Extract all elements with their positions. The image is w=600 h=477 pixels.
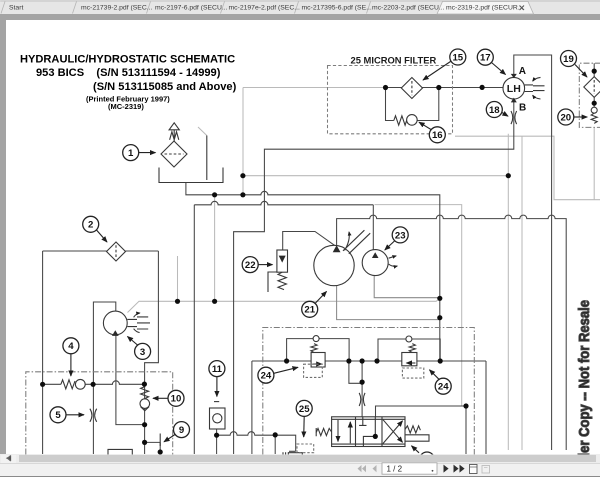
wire faint bus2 extension	[375, 205, 462, 406]
node faint cross taps	[240, 173, 245, 178]
wire pressure bus	[337, 215, 567, 450]
node pilot tap	[360, 380, 365, 385]
svg-text:ler Copy -- Not for Resale: ler Copy -- Not for Resale	[575, 300, 592, 457]
wire right24 bypass loop	[378, 339, 440, 361]
node filter15 taps	[383, 85, 388, 90]
relief spring 20	[591, 113, 597, 123]
wire pump3 outlet	[116, 335, 145, 425]
filter element F19	[584, 77, 600, 98]
svg-text:mc-2203-2.pdf (SECU...: mc-2203-2.pdf (SECU...	[372, 4, 445, 11]
callout 11	[209, 361, 225, 397]
wire check11 rail	[217, 432, 296, 452]
tab close x	[520, 6, 525, 11]
filter19 dash-dot box	[579, 63, 600, 127]
callout 9	[164, 422, 190, 442]
wire suction bus	[186, 183, 440, 361]
horizontal scrollbar	[0, 454, 600, 463]
node drain collector taps	[437, 296, 442, 301]
wire faint case drain	[128, 299, 440, 313]
check valve 10 spring	[141, 387, 149, 399]
svg-text:1: 1	[128, 148, 134, 159]
wire filter bypass	[386, 88, 439, 121]
wire strainer row	[43, 250, 159, 252]
wire faint top-right box	[455, 136, 600, 200]
svg-text:mc-21739-2.pdf (SEC...: mc-21739-2.pdf (SEC...	[81, 4, 153, 11]
node filter19 taps	[592, 69, 597, 74]
svg-text:24: 24	[438, 382, 449, 393]
wire LH A-port loop	[514, 55, 552, 450]
node spool top tap	[463, 403, 468, 408]
callout 4	[63, 338, 79, 376]
wire strainer left drop	[42, 251, 44, 454]
svg-text:11: 11	[212, 364, 223, 375]
callout 20	[558, 109, 587, 125]
svg-text:(MC-2319): (MC-2319)	[108, 102, 144, 111]
wire faint return drop A	[507, 134, 509, 450]
svg-text:23: 23	[395, 230, 406, 241]
wire check11 lower drop	[216, 429, 218, 454]
valve actuator	[405, 435, 429, 441]
bypass spring 16	[394, 116, 407, 125]
port relief right 24	[402, 353, 417, 366]
left group dash-dot box	[26, 372, 173, 455]
wire pump3 feed	[93, 302, 115, 384]
svg-text:mc-2197e-2.pdf (SEC...: mc-2197e-2.pdf (SEC...	[229, 4, 301, 11]
svg-text:1 / 2: 1 / 2	[387, 464, 403, 473]
wire faint return drop B	[521, 136, 523, 450]
reservoir tank	[159, 168, 223, 183]
callout 16	[419, 122, 445, 143]
wire faint filter19 drop	[593, 127, 595, 199]
svg-text:22: 22	[245, 260, 256, 271]
node bottom rail taps	[284, 358, 289, 363]
wire pump3 feed lower	[92, 384, 94, 454]
valve spring right	[405, 426, 420, 433]
toolbar nav prev (gray)	[373, 465, 377, 472]
relief valve 22	[277, 250, 288, 272]
wire main bottom rail	[252, 360, 486, 362]
svg-text:4: 4	[68, 341, 74, 352]
gear pump 3	[103, 311, 127, 335]
svg-text:15: 15	[452, 52, 463, 63]
wire faint vertical	[242, 88, 244, 195]
wire bottom rail left drop	[251, 361, 253, 454]
svg-text:A: A	[519, 66, 526, 77]
callout 5	[50, 407, 84, 423]
callout 3	[128, 337, 151, 360]
wire charge bus left drop	[193, 205, 195, 454]
wire faint cross line	[243, 175, 508, 177]
charge pump 23	[362, 250, 388, 276]
callout 10	[153, 390, 184, 406]
callout 25	[296, 400, 312, 437]
svg-text:18: 18	[489, 105, 500, 116]
wire filter19 drop	[593, 63, 595, 107]
tab labels	[9, 4, 524, 11]
wire charge pump feed	[372, 205, 374, 252]
callout 1	[123, 145, 156, 161]
svg-text:21: 21	[304, 305, 315, 316]
wire LH B-port return	[234, 99, 514, 454]
svg-text:17: 17	[480, 53, 491, 64]
callout 24 left	[258, 367, 298, 383]
LH drive motor	[503, 77, 525, 99]
directional control valve	[332, 417, 405, 447]
port relief left 24	[311, 353, 325, 368]
tab separators	[0, 1, 600, 14]
wire spool feed	[361, 361, 363, 417]
svg-text:16: 16	[432, 130, 443, 141]
orifice 9 plug	[159, 434, 161, 447]
wire spool top port	[376, 406, 467, 454]
callout 17	[477, 49, 505, 74]
svg-text:2: 2	[88, 220, 93, 231]
breather cap	[169, 123, 179, 130]
node check10 taps	[142, 422, 147, 427]
wire check11 rail drop	[274, 435, 276, 454]
wire bottom rail right drop	[485, 361, 487, 454]
check valve 11	[214, 401, 219, 403]
callout 19	[561, 51, 588, 78]
wire pilot jog	[349, 361, 362, 383]
svg-text:mc-217395-6.pdf (SE...: mc-217395-6.pdf (SE...	[302, 4, 372, 11]
wire faint sense vertical	[214, 195, 216, 301]
flow restrictor 18	[511, 111, 517, 124]
toolbar nav last-page	[454, 465, 465, 473]
wire filter to LH	[386, 87, 504, 89]
svg-text:3: 3	[140, 347, 145, 358]
wire faint charge line	[243, 87, 386, 89]
hydrostatic pump 21	[314, 245, 354, 285]
wire main pump drain	[337, 285, 440, 320]
node relief4 row taps	[40, 382, 45, 387]
orifice 5	[90, 409, 97, 422]
toolbar icon rotate	[470, 465, 478, 474]
check valve 10	[140, 399, 150, 409]
svg-text:953 BICS (S/N 513111594 - 1: 953 BICS (S/N 513111594 - 14999)	[36, 67, 221, 79]
wire strainer right drop	[145, 251, 159, 454]
node case drain taps	[175, 299, 180, 304]
hscroll left arrow	[8, 455, 11, 461]
relief valve 4	[61, 380, 75, 389]
solenoid 25	[288, 453, 302, 455]
svg-text:25: 25	[299, 404, 310, 415]
center group dash-dot box	[263, 328, 475, 455]
svg-text:9: 9	[179, 425, 184, 436]
svg-text:B: B	[519, 103, 526, 114]
callout 2	[83, 216, 107, 242]
svg-text:Start: Start	[9, 4, 23, 11]
tank return pipe	[206, 136, 208, 181]
suction strainer F2	[107, 242, 126, 261]
bottom toolbar	[0, 463, 600, 477]
svg-text:25 MICRON FILTER: 25 MICRON FILTER	[351, 55, 437, 66]
wire charge pump drain	[374, 276, 440, 298]
check ball 20	[591, 107, 597, 113]
gray strip below tabs	[0, 14, 600, 20]
svg-text:20: 20	[560, 112, 571, 123]
svg-text:5: 5	[55, 410, 61, 421]
node suction bus taps	[212, 192, 217, 197]
callout 26	[412, 446, 435, 467]
svg-text:19: 19	[563, 54, 574, 65]
svg-text:mc-2197-6.pdf (SECU...: mc-2197-6.pdf (SECU...	[155, 4, 228, 11]
svg-text:10: 10	[171, 394, 182, 405]
25 micron filter dashed box	[328, 66, 453, 134]
tab bar	[0, 0, 600, 14]
valve spring left	[316, 428, 332, 436]
callout 15	[423, 49, 466, 80]
svg-text:mc-2319-2.pdf (SECUR...: mc-2319-2.pdf (SECUR...	[446, 4, 524, 11]
LH output shaft	[525, 85, 545, 92]
svg-text:LH: LH	[507, 83, 521, 95]
node spool center tap	[373, 434, 378, 439]
toolbar nav next	[444, 465, 449, 473]
wire faint sense vertical 2	[177, 256, 179, 301]
toolbar icon (disabled)	[482, 466, 490, 474]
page number field	[382, 463, 437, 474]
bypass check ball 16	[407, 115, 418, 126]
filler strainer F1	[161, 141, 187, 167]
callout 22	[242, 257, 272, 273]
wire faint tank inlet	[198, 127, 207, 136]
callout 18	[486, 102, 508, 118]
callout 21	[302, 292, 327, 318]
active tab	[437, 2, 534, 15]
toolbar nav first-page (gray)	[358, 465, 367, 472]
wire servo branch	[283, 232, 337, 251]
filter element F15	[401, 78, 422, 99]
svg-text:24: 24	[261, 371, 272, 382]
wire orifice9 branch	[145, 442, 161, 454]
wire left24 bypass loop	[287, 339, 350, 361]
callout 24 right	[430, 370, 452, 394]
oil cooler stub	[108, 449, 132, 455]
svg-text:HYDRAULIC/HYDROSTATIC SCHEMATI: HYDRAULIC/HYDROSTATIC SCHEMATIC	[20, 54, 235, 66]
svg-text:(S/N 513115085 and Above): (S/N 513115085 and Above)	[93, 81, 237, 93]
callout 23	[385, 227, 408, 250]
wire charge bus	[194, 201, 373, 204]
node orifice9 tap	[158, 449, 163, 454]
spool restrictor	[359, 393, 365, 406]
wire relief4 row	[43, 381, 145, 384]
node check11 rail taps	[214, 433, 219, 438]
gray page surround left	[0, 20, 6, 454]
